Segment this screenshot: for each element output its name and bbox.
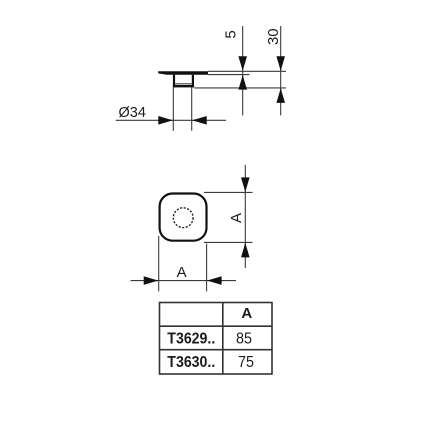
dashed circle (drain hole) bbox=[173, 208, 193, 228]
svg-text:A: A bbox=[228, 213, 245, 223]
dimension 30 arrow up bbox=[276, 88, 285, 103]
svg-text:T3629..: T3629.. bbox=[167, 330, 215, 347]
dimension diameter 34 line bbox=[116, 119, 226, 121]
svg-text:A: A bbox=[241, 305, 252, 322]
extension line square top right bbox=[204, 191, 253, 193]
extension line square right bbox=[206, 244, 208, 292]
dimension 5 label bbox=[223, 30, 240, 38]
dimension diameter 34 arrow right bbox=[158, 116, 173, 125]
plate (side view, filled cap) bbox=[158, 71, 208, 75]
collar inner line bbox=[175, 83, 192, 85]
collar right edge bbox=[192, 75, 194, 88]
extension line plate top bbox=[208, 70, 286, 72]
stem extension line left bbox=[172, 88, 174, 131]
dimension diameter 34 label bbox=[119, 105, 146, 121]
dimension A horizontal line bbox=[131, 280, 237, 282]
extension line square bottom right bbox=[204, 241, 253, 243]
extension line collar bottom bbox=[194, 87, 286, 89]
table cell T3629 bbox=[167, 330, 215, 347]
dimension A vertical arrow down bbox=[241, 177, 250, 192]
dimension 5 arrow down bbox=[238, 56, 247, 71]
dimension 30 line bbox=[280, 26, 282, 115]
dimension A vertical line bbox=[244, 165, 246, 268]
collar left edge bbox=[173, 75, 175, 88]
table frame bbox=[160, 303, 273, 375]
svg-text:85: 85 bbox=[236, 330, 252, 347]
table header A bbox=[241, 305, 252, 322]
svg-text:5: 5 bbox=[223, 30, 240, 38]
extension line plate bottom bbox=[208, 74, 249, 76]
dimension A vertical label bbox=[228, 213, 245, 223]
dimension 5 line bbox=[242, 26, 244, 115]
dimension 30 arrow down bbox=[276, 56, 285, 71]
dimension 30 label bbox=[265, 28, 282, 45]
dimension A vertical arrow up bbox=[241, 242, 250, 257]
svg-text:30: 30 bbox=[265, 28, 282, 45]
stem extension line right bbox=[191, 88, 193, 131]
dimension A horizontal arrow left bbox=[207, 276, 222, 285]
table cell 75 bbox=[238, 354, 254, 371]
collar bottom bar bbox=[173, 85, 194, 88]
rounded square (top view) bbox=[160, 194, 207, 241]
dimension 5 arrow up bbox=[238, 75, 247, 90]
svg-text:Ø34: Ø34 bbox=[119, 105, 146, 121]
dimension A horizontal arrow right bbox=[144, 276, 159, 285]
dimension A horizontal label bbox=[177, 264, 187, 281]
svg-text:T3630..: T3630.. bbox=[167, 354, 215, 371]
table cell T3630 bbox=[167, 354, 215, 371]
extension line square left bbox=[158, 236, 160, 291]
table cell 85 bbox=[236, 330, 252, 347]
svg-text:A: A bbox=[177, 264, 187, 281]
svg-text:75: 75 bbox=[238, 354, 254, 371]
dimension diameter 34 arrow left bbox=[192, 116, 207, 125]
